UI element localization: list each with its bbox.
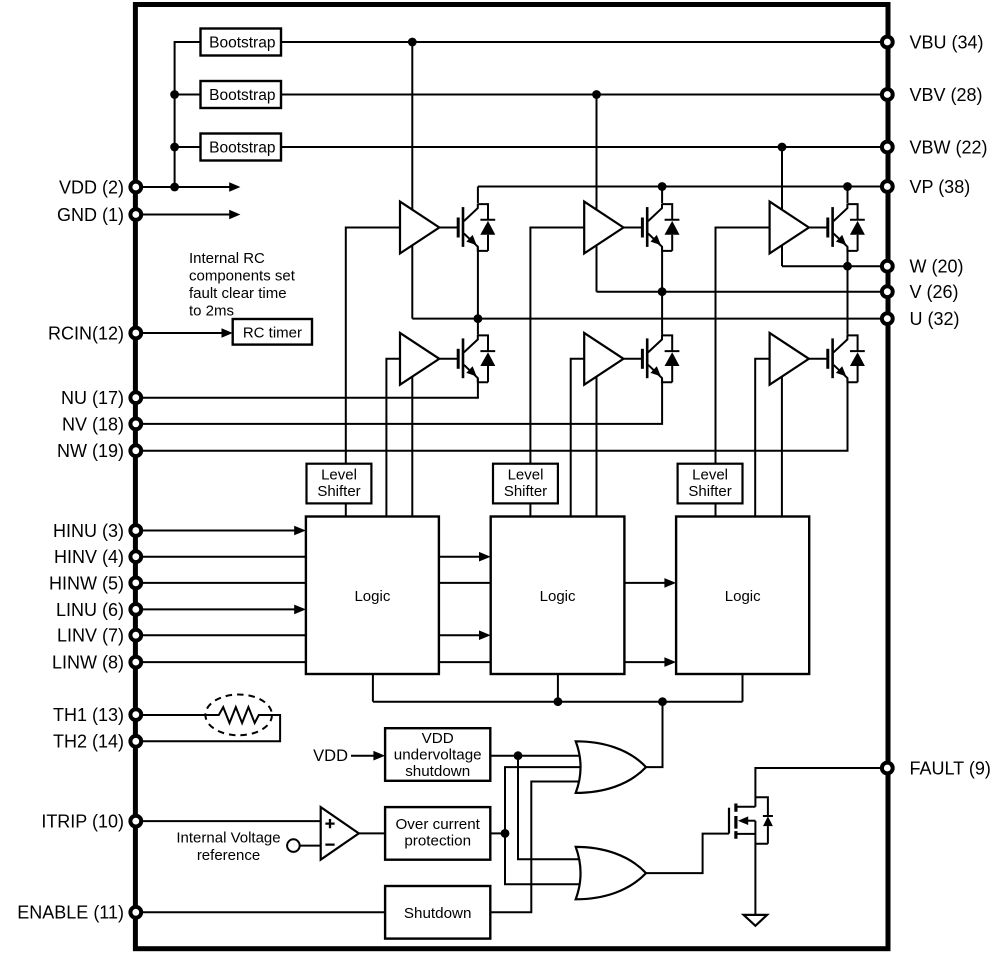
reference circle node — [287, 839, 300, 852]
wire LINW logic V to logic W — [624, 661, 665, 663]
RC timer block — [233, 319, 312, 345]
pin NU (17) — [130, 392, 141, 403]
wire VBU drop to high-side driver U — [411, 42, 413, 215]
arrow LINV into logic V — [479, 630, 491, 640]
wire VBW drop to high-side driver W — [781, 147, 783, 215]
svg-text:FAULT (9): FAULT (9) — [910, 758, 991, 778]
svg-text:Logic: Logic — [725, 588, 761, 605]
gate driver high-side W — [770, 202, 865, 254]
junction VDD supply — [170, 183, 179, 192]
wire VBV drop to high-side driver V — [596, 95, 598, 216]
wire LINW to logic U — [136, 661, 306, 663]
pin NW (19) — [130, 445, 141, 456]
wire high-side W return — [781, 241, 783, 266]
wire collector high U to VP — [477, 187, 479, 204]
svg-text:protection: protection — [404, 832, 471, 849]
OR gate 1 — [576, 741, 646, 793]
junction W node — [843, 262, 852, 271]
svg-text:shutdown: shutdown — [405, 763, 470, 780]
VDD undervoltage shutdown block — [385, 728, 490, 781]
junction fault common OR1 — [658, 697, 667, 706]
wire fault common line — [373, 701, 743, 703]
svg-text:components set: components set — [189, 267, 296, 284]
svg-text:W (20): W (20) — [910, 257, 964, 277]
wire LINU to logic U — [136, 608, 295, 610]
wire shutdown output to OR1 — [490, 782, 592, 913]
wire low-side V return to logic — [596, 373, 598, 517]
wire MOSFET source to ground — [754, 821, 756, 915]
pin HINV (4) — [130, 551, 141, 562]
wire LINW logic U to logic V — [439, 661, 491, 663]
wire logic W to low driver W input — [755, 359, 771, 517]
wire supply to Bootstrap V — [175, 94, 201, 96]
wire collector low U — [477, 319, 479, 335]
svg-text:TH1 (13): TH1 (13) — [53, 705, 124, 725]
svg-text:ITRIP (10): ITRIP (10) — [41, 812, 124, 832]
pin GND (1) — [130, 209, 141, 220]
pin TH2 (14) — [130, 736, 141, 747]
wire collector high V to VP — [661, 187, 663, 204]
wire HINW logic U to logic V — [439, 582, 491, 584]
IC boundary — [135, 5, 888, 949]
wire RCIN to RC timer — [136, 332, 223, 334]
wire OR2 output to fault MOSFET gate — [646, 834, 729, 874]
wire collector high W to VP — [847, 187, 849, 204]
svg-text:GND (1): GND (1) — [57, 205, 124, 225]
wire V phase line — [597, 291, 888, 293]
wire logic W fault stub — [742, 674, 744, 702]
logic block U — [306, 517, 439, 675]
wire ITRIP to comparator — [136, 820, 321, 822]
svg-text:Logic: Logic — [354, 588, 390, 605]
wire VBU rail — [281, 41, 887, 43]
arrow HINV into logic V — [479, 552, 491, 562]
pin VDD (2) — [130, 182, 141, 193]
svg-text:Level: Level — [321, 466, 357, 483]
wire HINW to logic U — [136, 582, 306, 584]
wire high-side U return — [411, 241, 413, 319]
svg-text:NW (19): NW (19) — [57, 441, 124, 461]
wire logic U to low driver U input — [386, 359, 402, 517]
annotation internal RC — [189, 250, 296, 320]
arrow LINU into logic U — [294, 605, 306, 615]
wire logic V to level shifter V — [529, 503, 531, 516]
wire level shifter W to high driver W input — [716, 228, 772, 464]
gate driver low-side W — [770, 333, 865, 385]
pin HINW (5) — [130, 578, 141, 589]
wire OCP output node — [490, 832, 505, 834]
svg-text:Shifter: Shifter — [688, 483, 731, 500]
wire supply to Bootstrap W — [175, 146, 201, 148]
wire ENABLE to shutdown block — [136, 911, 385, 913]
logic block V — [491, 517, 625, 675]
svg-text:LINW (8): LINW (8) — [52, 653, 124, 673]
svg-text:VDD: VDD — [422, 730, 454, 747]
wire VDD supply vertical — [175, 42, 201, 187]
junction undervoltage output — [514, 751, 523, 760]
pin FAULT (9) — [882, 763, 893, 774]
svg-text:VBW (22): VBW (22) — [910, 137, 988, 157]
svg-text:Bootstrap: Bootstrap — [209, 139, 275, 156]
arrow HINW into logic W — [664, 578, 676, 588]
svg-text:RCIN(12): RCIN(12) — [48, 323, 124, 343]
wire LINV logic U to logic V — [439, 634, 480, 636]
svg-text:HINW (5): HINW (5) — [49, 573, 124, 593]
arrow GND feed — [229, 210, 240, 220]
comparator U2 — [321, 807, 359, 860]
junction VBU drop — [408, 38, 417, 47]
arrow HINU into logic U — [294, 526, 306, 536]
svg-text:V (26): V (26) — [910, 282, 959, 302]
svg-text:NU (17): NU (17) — [61, 388, 124, 408]
arrow RCIN — [222, 328, 233, 338]
svg-text:U (32): U (32) — [910, 309, 960, 329]
pin ENABLE (11) — [130, 907, 141, 918]
wire logic V to low driver V input — [571, 359, 586, 517]
svg-text:VBU (34): VBU (34) — [910, 32, 984, 52]
wire W phase line — [782, 265, 887, 267]
wire comparator output to OCP block — [359, 832, 385, 834]
gate driver high-side V — [584, 202, 679, 254]
wire emitter low W to NW — [136, 379, 848, 451]
svg-text:Internal Voltage: Internal Voltage — [176, 829, 280, 846]
wire level shifter U to high driver U input — [346, 228, 402, 464]
svg-text:Bootstrap: Bootstrap — [209, 34, 275, 51]
pin LINU (6) — [130, 604, 141, 615]
pin RCIN (12) — [130, 328, 141, 339]
svg-text:RC timer: RC timer — [243, 324, 302, 341]
junction U node — [474, 314, 483, 323]
wire HINV logic U to logic V — [439, 556, 480, 558]
wire high-side V return — [596, 241, 598, 292]
pin LINV (7) — [130, 630, 141, 641]
OR gate 2 — [576, 847, 646, 899]
svg-text:HINV (4): HINV (4) — [54, 547, 124, 567]
wire HINV to logic U — [136, 556, 306, 558]
svg-text:VDD (2): VDD (2) — [59, 177, 124, 197]
pin NV (18) — [130, 419, 141, 430]
wire GND feed — [136, 214, 230, 216]
bootstrap block U — [201, 29, 282, 56]
svg-text:TH2 (14): TH2 (14) — [53, 732, 124, 752]
svg-text:Internal RC: Internal RC — [189, 250, 265, 267]
gate driver low-side U — [400, 333, 495, 385]
wire HINW logic V to logic W — [624, 582, 665, 584]
wire VDD to undervoltage block — [351, 755, 375, 757]
pin V (26) — [882, 286, 893, 297]
pin W (20) — [882, 261, 893, 272]
junction V node — [658, 287, 667, 296]
wire emitter high W down to W node — [847, 247, 849, 266]
svg-text:NV (18): NV (18) — [62, 414, 124, 434]
svg-text:HINU (3): HINU (3) — [53, 521, 124, 541]
thermistor RT1 between TH1 and TH2 — [136, 707, 280, 741]
bootstrap block W — [201, 134, 282, 161]
svg-text:VP (38): VP (38) — [910, 177, 971, 197]
shutdown block — [385, 886, 490, 939]
MOSFET Q1 body diode — [763, 816, 773, 826]
wire FAULT drain line — [755, 768, 887, 807]
logic block W — [676, 517, 809, 675]
pin VBW (22) — [882, 142, 893, 153]
wire VBW rail — [281, 146, 887, 148]
junction VBV drop — [592, 90, 601, 99]
svg-text:Level: Level — [508, 466, 544, 483]
pin ITRIP (10) — [130, 816, 141, 827]
gate driver high-side U — [400, 202, 495, 254]
wire logic W to level shifter W — [715, 503, 717, 516]
wire level shifter V to high driver V input — [530, 228, 586, 464]
arrow VDD feed — [229, 182, 240, 192]
wire VP rail — [478, 186, 887, 188]
wire logic V fault stub — [557, 674, 559, 702]
svg-text:fault clear time: fault clear time — [189, 285, 287, 302]
wire reference to comparator inverting input — [300, 845, 321, 847]
ground symbol — [744, 915, 768, 926]
wire low-side U return to logic — [411, 373, 413, 517]
arrow VDD into undervoltage block — [373, 751, 385, 761]
wire LINV to logic U — [136, 634, 306, 636]
svg-text:reference: reference — [197, 847, 260, 864]
bootstrap block V — [201, 81, 282, 108]
wire undervoltage to OR2 — [518, 756, 592, 860]
gate driver low-side V — [584, 333, 679, 385]
wire VBV rail — [281, 94, 887, 96]
pin TH1 (13) — [130, 709, 141, 720]
wire OCP to OR2 — [505, 833, 592, 884]
pin VBV (28) — [882, 89, 893, 100]
svg-text:Shifter: Shifter — [504, 483, 547, 500]
wire OCP to OR1 — [505, 767, 592, 833]
wire HINU to logic U — [136, 530, 295, 532]
svg-text:LINV (7): LINV (7) — [57, 626, 124, 646]
level shifter V — [493, 464, 558, 504]
wire U phase line — [412, 318, 887, 320]
pin U (32) — [882, 313, 893, 324]
over current protection block — [385, 807, 490, 860]
svg-text:Shifter: Shifter — [317, 483, 360, 500]
wire emitter high V down to V node — [661, 247, 663, 292]
wire undervoltage output to OR1 — [490, 755, 592, 757]
junction VP collector V — [658, 182, 667, 191]
pin VBU (34) — [882, 37, 893, 48]
pin HINU (3) — [130, 525, 141, 536]
junction bootstrap W feed — [170, 143, 179, 152]
svg-text:Logic: Logic — [540, 588, 576, 605]
wire emitter low U to NU — [136, 379, 478, 398]
junction OCP output — [501, 829, 510, 838]
junction fault common V — [554, 697, 563, 706]
pin LINW (8) — [130, 657, 141, 668]
junction VP collector W — [843, 182, 852, 191]
arrow LINW into logic W — [664, 657, 676, 667]
wire logic U fault stub — [372, 674, 374, 702]
wire collector low V — [661, 292, 663, 335]
wire logic U to level shifter U — [345, 503, 347, 516]
wire emitter high U down to U node — [477, 247, 479, 319]
svg-text:Shutdown: Shutdown — [404, 905, 472, 922]
thermistor dashed ellipse — [205, 695, 272, 736]
junction VBW drop — [778, 143, 787, 152]
svg-text:Over current: Over current — [395, 816, 480, 833]
MOSFET Q1 arrow — [738, 816, 748, 825]
wire collector low W — [847, 266, 849, 334]
level shifter U — [307, 464, 372, 504]
svg-text:LINU (6): LINU (6) — [56, 600, 124, 620]
svg-text:VBV (28): VBV (28) — [910, 85, 983, 105]
level shifter W — [678, 464, 743, 504]
svg-text:VDD: VDD — [313, 747, 348, 765]
wire VDD feed — [136, 186, 230, 188]
junction bootstrap V feed — [170, 90, 179, 99]
wire OR1 output to fault common — [646, 702, 663, 767]
wire low-side W return to logic — [781, 373, 783, 517]
pin VP (38) — [882, 181, 893, 192]
svg-text:Bootstrap: Bootstrap — [209, 87, 275, 104]
svg-text:undervoltage: undervoltage — [394, 747, 482, 764]
svg-text:Level: Level — [692, 466, 728, 483]
svg-text:to 2ms: to 2ms — [189, 302, 234, 319]
MOSFET Q1 fault output — [729, 797, 773, 843]
svg-text:ENABLE (11): ENABLE (11) — [17, 903, 124, 923]
wire emitter low V to NV — [136, 379, 662, 424]
